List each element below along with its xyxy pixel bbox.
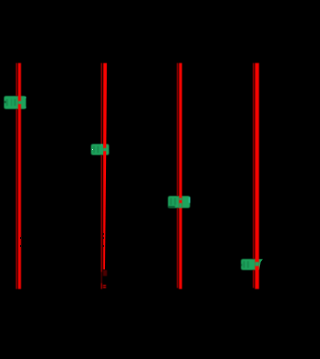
string 2 winding notch b (103, 237, 104, 239)
label 3 text strokes (170, 198, 172, 205)
label 2 cyan speck at top where thin line enters (101, 144, 102, 145)
label 1 cyan speck top-right (25, 97, 27, 99)
string 4 thin highlight line (lower segment) (253, 270, 254, 288)
label 2 white speck left edge (92, 149, 93, 151)
string 1 thin highlight line (upper segment) (16, 63, 17, 97)
string 2 thin highlight line (upper segment) (101, 63, 103, 144)
label 3 green bridge over thick line (lower) (179, 203, 183, 207)
string 2 winding notch c (103, 245, 104, 247)
label 3 cyan sliver right edge (189, 197, 191, 204)
label 4 green bridge over thick line (255, 262, 259, 266)
string 4 thick line (255, 63, 259, 289)
label 3 green bridge over thick line (upper) (179, 198, 183, 200)
string 2 thick line (bottom dash 1) (103, 285, 105, 287)
string 3 thick line (179, 63, 182, 289)
note label 3 (green tag on string 3) (168, 196, 190, 208)
label 4 digit-7 wedge at right (257, 259, 264, 270)
string 2 thick line (dim fade) (103, 270, 107, 276)
label 2 green bridge over thick line (103, 148, 108, 152)
string 1 thin highlight line (lower segment) (16, 109, 17, 289)
string 1 winding notch a (20, 237, 22, 239)
note label 4 (green tag on string 4) (241, 259, 258, 270)
note label 2 (green tag on string 2) (91, 144, 109, 155)
string 2 winding notch a (103, 233, 104, 235)
label 1 dark notch on left edge (4, 101, 6, 104)
label 4 text strokes (243, 261, 245, 268)
note label 1 (green tag on string 1) (4, 96, 26, 108)
string 1 thick line (18, 63, 21, 289)
string 3 thin highlight line (upper segment) (177, 63, 178, 197)
string 2 thick line (bottom dash 2) (103, 287, 105, 289)
label 3 dark tail bottom-left (168, 206, 175, 208)
label 4 dark notch on left edge (241, 264, 242, 267)
string 3 thin highlight line (lower segment) (177, 208, 178, 289)
label 1 text strokes (6, 99, 8, 106)
string 2 thin highlight line (bottom bright dash) (101, 283, 103, 289)
string 4 thin highlight line (upper segment) (253, 63, 254, 259)
label 1 teal speck bottom-right (25, 107, 27, 109)
string 2 thin highlight line (dim segment near bottom) (101, 272, 103, 283)
string 2 thin highlight line (middle segment) (101, 155, 103, 272)
string 1 winding notch b (20, 245, 22, 247)
label 2 text strokes (93, 146, 95, 152)
string 2 thick line (solid part, slight taper) (103, 63, 108, 270)
label 1 green bridge over thick line (18, 101, 22, 104)
